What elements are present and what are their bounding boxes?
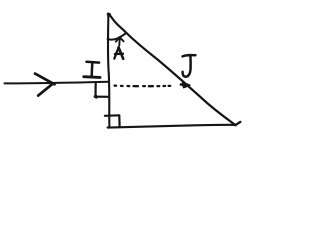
prism hypotenuse face bbox=[109, 14, 236, 125]
label I (point of incidence) bbox=[84, 62, 100, 78]
label J (exit point on hypotenuse) bbox=[183, 55, 196, 77]
corner blob of normal square bbox=[94, 95, 98, 99]
corner tick at bottom-right vertex bbox=[235, 122, 240, 125]
incident ray (horizontal line entering prism at I) bbox=[5, 82, 109, 84]
prism bottom face (base edge) bbox=[108, 125, 236, 128]
arrow at A: right barb bbox=[120, 37, 124, 41]
label A (apex angle) bbox=[114, 47, 123, 58]
apex angle arc at A bbox=[108, 33, 127, 40]
dot before junction at J bbox=[181, 83, 183, 86]
prism left vertical face (edge from apex to bottom-left corner) bbox=[108, 14, 109, 128]
arrow pointing from label A up to the arc: stem bbox=[118, 38, 120, 45]
ray direction arrowhead lower stroke bbox=[38, 84, 52, 96]
arrow at A: left barb bbox=[116, 37, 120, 42]
ray direction arrowhead upper stroke bbox=[35, 74, 55, 85]
dotted continuation line from I to J bbox=[115, 84, 171, 87]
right-angle marker at bottom-left interior corner of prism bbox=[105, 115, 120, 127]
apex ink blob bbox=[108, 13, 109, 17]
right-angle marker at I (normal square below ray) bbox=[96, 83, 109, 96]
junction blob / arrowhead where dotted line meets hypotenuse at J bbox=[183, 82, 190, 87]
